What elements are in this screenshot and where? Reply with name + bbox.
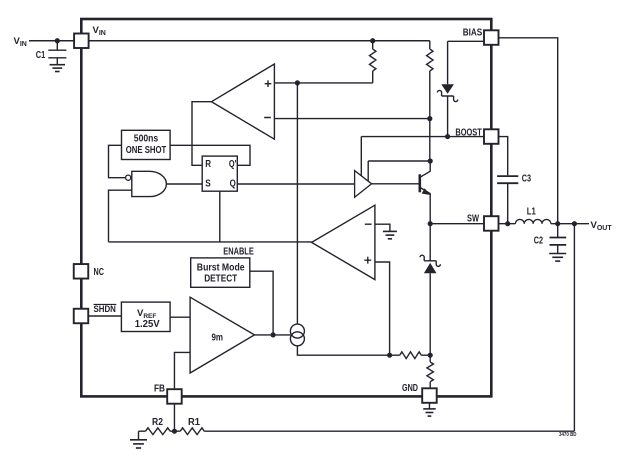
svg-text:BIAS: BIAS	[463, 27, 483, 38]
svg-text:SW: SW	[467, 214, 479, 225]
svg-text:SHDN: SHDN	[94, 304, 116, 314]
svg-text:DETECT: DETECT	[204, 273, 237, 284]
svg-text:VIN: VIN	[93, 25, 106, 37]
svg-text:Burst Mode: Burst Mode	[197, 262, 245, 273]
svg-text:9m: 9m	[212, 332, 224, 343]
svg-text:Q: Q	[230, 179, 236, 190]
svg-text:BOOST: BOOST	[455, 127, 481, 138]
svg-text:3470 BD: 3470 BD	[559, 432, 577, 438]
svg-text:S: S	[205, 179, 211, 190]
svg-text:C2: C2	[534, 236, 544, 247]
svg-text:Q': Q'	[229, 159, 237, 170]
svg-text:VOUT: VOUT	[591, 220, 613, 232]
svg-text:ENABLE: ENABLE	[223, 247, 254, 258]
svg-text:500ns: 500ns	[134, 134, 159, 145]
svg-text:R2: R2	[152, 417, 163, 428]
svg-text:ONE SHOT: ONE SHOT	[126, 145, 167, 156]
svg-text:R1: R1	[188, 417, 200, 428]
svg-text:C1: C1	[36, 50, 46, 61]
svg-text:FB: FB	[154, 383, 165, 394]
svg-text:1.25V: 1.25V	[135, 319, 160, 330]
svg-text:R: R	[205, 159, 211, 170]
svg-text:NC: NC	[94, 267, 104, 278]
svg-text:GND: GND	[402, 383, 418, 394]
svg-text:VIN: VIN	[14, 36, 27, 48]
svg-text:L1: L1	[527, 207, 536, 218]
svg-text:C3: C3	[522, 173, 532, 184]
